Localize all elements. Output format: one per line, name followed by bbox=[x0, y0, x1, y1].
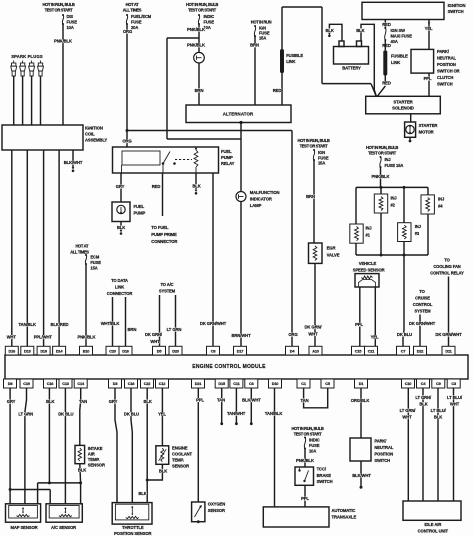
svg-text:VALVE: VALVE bbox=[327, 252, 340, 257]
svg-text:SYSTEM: SYSTEM bbox=[159, 288, 176, 293]
svg-text:BRN/WHT: BRN/WHT bbox=[231, 333, 251, 338]
svg-text:YEL: YEL bbox=[158, 412, 166, 417]
svg-text:TEST OR START: TEST OR START bbox=[368, 151, 397, 156]
svg-text:INDIC: INDIC bbox=[309, 438, 320, 443]
svg-text:CONTROL: CONTROL bbox=[413, 302, 433, 307]
svg-text:TO FUEL: TO FUEL bbox=[151, 225, 169, 230]
svg-text:NEUTRAL: NEUTRAL bbox=[437, 56, 456, 61]
svg-text:HOT IN RUN, BULB: HOT IN RUN, BULB bbox=[366, 145, 398, 150]
svg-text:WHT: WHT bbox=[450, 402, 460, 407]
svg-text:INJ: INJ bbox=[391, 196, 397, 201]
svg-text:STARTER: STARTER bbox=[393, 99, 413, 104]
svg-text:D17: D17 bbox=[237, 348, 244, 353]
svg-text:D15: D15 bbox=[218, 381, 226, 386]
svg-text:IGN: IGN bbox=[318, 150, 325, 155]
svg-text:YEL: YEL bbox=[425, 26, 433, 31]
svg-text:RED: RED bbox=[382, 22, 391, 27]
svg-text:POSITION SENSOR: POSITION SENSOR bbox=[114, 531, 151, 536]
svg-text:TAN: TAN bbox=[79, 399, 87, 404]
svg-text:BRN: BRN bbox=[128, 327, 137, 332]
svg-text:TO: TO bbox=[419, 289, 425, 294]
svg-text:BLK/WHT: BLK/WHT bbox=[242, 398, 261, 403]
svg-text:PNK/BLK: PNK/BLK bbox=[78, 335, 96, 340]
svg-text:RED: RED bbox=[273, 88, 282, 93]
svg-text:OXYGEN: OXYGEN bbox=[208, 501, 225, 506]
svg-text:DK BLU: DK BLU bbox=[124, 412, 139, 417]
svg-text:PPL: PPL bbox=[196, 398, 204, 403]
svg-text:ORG: ORG bbox=[122, 139, 131, 144]
svg-text:RED: RED bbox=[382, 81, 391, 86]
svg-text:LAMP: LAMP bbox=[250, 203, 262, 208]
svg-text:IGNITION: IGNITION bbox=[448, 3, 466, 8]
svg-text:BRN: BRN bbox=[306, 194, 315, 199]
svg-text:CLUTCH: CLUTCH bbox=[437, 75, 453, 80]
svg-text:COOLANT: COOLANT bbox=[172, 452, 193, 457]
svg-text:SENSOR: SENSOR bbox=[88, 463, 105, 468]
svg-text:D20: D20 bbox=[172, 348, 179, 353]
svg-text:TEMP.: TEMP. bbox=[88, 457, 100, 462]
svg-text:SOLENOID: SOLENOID bbox=[392, 106, 414, 111]
svg-text:BLK: BLK bbox=[192, 184, 200, 189]
svg-text:PNK/BLK: PNK/BLK bbox=[187, 27, 205, 32]
svg-text:BRAKE: BRAKE bbox=[317, 473, 332, 478]
svg-text:HOT IN RUN, BULB: HOT IN RUN, BULB bbox=[186, 2, 218, 7]
svg-text:SYSTEM: SYSTEM bbox=[414, 308, 431, 313]
svg-text:FUEL: FUEL bbox=[134, 204, 145, 209]
svg-text:C22: C22 bbox=[144, 381, 152, 386]
svg-text:LINK: LINK bbox=[115, 285, 124, 290]
svg-text:BLK: BLK bbox=[419, 402, 427, 407]
svg-text:ALL TIMES: ALL TIMES bbox=[70, 249, 89, 254]
svg-text:IGN SW: IGN SW bbox=[391, 28, 406, 33]
svg-text:DK GRN/: DK GRN/ bbox=[145, 332, 163, 337]
svg-text:TAN: TAN bbox=[301, 398, 309, 403]
svg-text:15A: 15A bbox=[90, 266, 97, 271]
svg-text:D10: D10 bbox=[272, 381, 279, 386]
svg-text:15A: 15A bbox=[318, 161, 325, 166]
svg-text:HOT IN RUN, BULB: HOT IN RUN, BULB bbox=[43, 2, 75, 7]
svg-text:RED: RED bbox=[152, 184, 161, 189]
svg-text:INJ: INJ bbox=[415, 224, 421, 229]
svg-text:A10: A10 bbox=[312, 348, 319, 353]
svg-text:INDICATOR: INDICATOR bbox=[250, 196, 272, 201]
svg-text:FUEL: FUEL bbox=[221, 149, 232, 154]
svg-text:TCC/: TCC/ bbox=[317, 467, 327, 472]
svg-text:WHT: WHT bbox=[402, 415, 412, 420]
svg-text:A/C SENSOR: A/C SENSOR bbox=[51, 525, 76, 530]
svg-text:FUSE: FUSE bbox=[67, 20, 78, 25]
svg-text:FUEL/ECM: FUEL/ECM bbox=[131, 14, 152, 19]
svg-text:LT GRN/: LT GRN/ bbox=[400, 408, 417, 413]
svg-text:THROTTLE: THROTTLE bbox=[122, 525, 144, 530]
svg-text:BLK/RED: BLK/RED bbox=[51, 322, 69, 327]
svg-text:SENSOR: SENSOR bbox=[208, 508, 225, 513]
svg-text:TEMP.: TEMP. bbox=[172, 458, 184, 463]
svg-text:ALL TIMES: ALL TIMES bbox=[123, 8, 142, 13]
svg-text:15A: 15A bbox=[259, 36, 266, 41]
svg-text:SENSOR: SENSOR bbox=[172, 464, 189, 469]
svg-text:PPL: PPL bbox=[301, 496, 309, 501]
svg-text:VEHICLE: VEHICLE bbox=[359, 261, 377, 266]
svg-text:WHT/BLK: WHT/BLK bbox=[101, 321, 120, 326]
svg-text:DK GRN/WHT: DK GRN/WHT bbox=[409, 321, 436, 326]
svg-text:BLK: BLK bbox=[434, 415, 442, 420]
svg-text:BLK: BLK bbox=[78, 468, 86, 473]
svg-text:BRN: BRN bbox=[195, 88, 204, 93]
svg-text:TRANSAXLE: TRANSAXLE bbox=[332, 514, 357, 519]
svg-text:MAXI FUSE: MAXI FUSE bbox=[391, 34, 413, 39]
svg-text:LT GRN: LT GRN bbox=[167, 327, 182, 332]
svg-text:TAN: TAN bbox=[217, 398, 225, 403]
svg-text:TO: TO bbox=[444, 257, 450, 262]
svg-text:C16: C16 bbox=[47, 381, 55, 386]
svg-text:HOT IN RUN: HOT IN RUN bbox=[251, 20, 272, 25]
svg-text:PNK/BLK: PNK/BLK bbox=[296, 458, 314, 463]
svg-text:IDLE AIR: IDLE AIR bbox=[424, 522, 441, 527]
svg-text:CONNECTOR: CONNECTOR bbox=[151, 239, 177, 244]
svg-text:EGR: EGR bbox=[327, 246, 336, 251]
svg-text:TO DATA: TO DATA bbox=[111, 278, 128, 283]
svg-text:TEST OR START: TEST OR START bbox=[300, 144, 329, 149]
svg-text:MOTOR: MOTOR bbox=[419, 129, 434, 134]
svg-text:ASSEMBLY: ASSEMBLY bbox=[85, 138, 107, 143]
svg-text:HOT AT: HOT AT bbox=[126, 2, 140, 7]
svg-text:BLK: BLK bbox=[117, 225, 125, 230]
svg-text:INJ: INJ bbox=[438, 196, 444, 201]
svg-text:BLK/WHT: BLK/WHT bbox=[352, 473, 371, 478]
svg-text:FUSIBLE: FUSIBLE bbox=[286, 53, 303, 58]
svg-text:SWITCH OR: SWITCH OR bbox=[437, 69, 460, 74]
svg-text:ORG: ORG bbox=[288, 332, 297, 337]
svg-text:LINK: LINK bbox=[286, 59, 295, 64]
svg-text:LT BLU/: LT BLU/ bbox=[431, 408, 447, 413]
svg-text:ALTERNATOR: ALTERNATOR bbox=[223, 112, 254, 117]
svg-text:PNK/BLK: PNK/BLK bbox=[187, 43, 205, 48]
svg-text:D14: D14 bbox=[56, 348, 64, 353]
svg-text:PPL/WHT: PPL/WHT bbox=[34, 335, 53, 340]
svg-text:PUMP: PUMP bbox=[221, 155, 233, 160]
svg-text:TAN/BLK: TAN/BLK bbox=[265, 411, 282, 416]
svg-text:IGNITION: IGNITION bbox=[85, 126, 103, 131]
svg-text:TEST OR START: TEST OR START bbox=[45, 8, 74, 13]
svg-text:AIR: AIR bbox=[88, 452, 95, 457]
svg-text:D11: D11 bbox=[445, 348, 452, 353]
svg-text:C12: C12 bbox=[159, 381, 167, 386]
svg-text:LT GRN: LT GRN bbox=[18, 412, 33, 417]
svg-text:C14: C14 bbox=[77, 381, 85, 386]
svg-text:D21: D21 bbox=[195, 381, 203, 386]
svg-text:FUSE: FUSE bbox=[204, 20, 215, 25]
svg-text:FUSE: FUSE bbox=[131, 20, 142, 25]
svg-text:C13: C13 bbox=[62, 381, 70, 386]
svg-text:BLK: BLK bbox=[46, 399, 54, 404]
svg-text:TO A/C: TO A/C bbox=[160, 282, 173, 287]
svg-text:INTAKE: INTAKE bbox=[88, 446, 103, 451]
svg-text:COOLING FAN: COOLING FAN bbox=[433, 264, 460, 269]
svg-text:C20: C20 bbox=[109, 348, 116, 353]
svg-text:TEST OR START: TEST OR START bbox=[294, 431, 323, 436]
svg-text:C11: C11 bbox=[233, 381, 240, 386]
svg-text:DIS: DIS bbox=[67, 14, 74, 19]
svg-text:FUSIBLE: FUSIBLE bbox=[391, 54, 408, 59]
svg-text:AUTOMATIC: AUTOMATIC bbox=[332, 508, 356, 513]
svg-text:PPL: PPL bbox=[424, 76, 432, 81]
svg-text:C10: C10 bbox=[405, 381, 412, 386]
svg-text:BLK: BLK bbox=[325, 28, 333, 33]
svg-text:FUSE: FUSE bbox=[318, 155, 329, 160]
svg-text:WHT: WHT bbox=[308, 332, 318, 337]
svg-text:PARK/: PARK/ bbox=[374, 439, 387, 444]
svg-text:C21: C21 bbox=[368, 348, 376, 353]
svg-text:SPEED SENSOR: SPEED SENSOR bbox=[353, 267, 385, 272]
svg-text:HOT AT: HOT AT bbox=[75, 244, 89, 249]
svg-text:LT BLU/: LT BLU/ bbox=[447, 395, 463, 400]
svg-text:D22: D22 bbox=[417, 348, 425, 353]
svg-text:D16: D16 bbox=[122, 348, 130, 353]
svg-text:LINK: LINK bbox=[391, 60, 400, 65]
svg-text:BLK/WHT: BLK/WHT bbox=[64, 160, 83, 165]
svg-text:BLK: BLK bbox=[356, 28, 364, 33]
svg-text:ORG: ORG bbox=[123, 29, 132, 34]
svg-text:DK GRN/WHT: DK GRN/WHT bbox=[200, 321, 227, 326]
svg-text:C7: C7 bbox=[401, 348, 406, 353]
svg-text:STARTER: STARTER bbox=[419, 123, 438, 128]
svg-text:SWITCH: SWITCH bbox=[374, 458, 390, 463]
svg-text:INDIC: INDIC bbox=[204, 14, 215, 19]
svg-text:NEUTRAL: NEUTRAL bbox=[374, 445, 393, 450]
svg-text:TEST OR START: TEST OR START bbox=[188, 8, 217, 13]
svg-text:POSITION: POSITION bbox=[437, 62, 456, 67]
svg-text:C19: C19 bbox=[23, 381, 31, 386]
svg-text:GRY: GRY bbox=[7, 399, 16, 404]
svg-text:CONTROL RELAY: CONTROL RELAY bbox=[430, 270, 464, 275]
svg-text:HOT IN RUN, BULB: HOT IN RUN, BULB bbox=[292, 426, 324, 431]
svg-text:10A: 10A bbox=[309, 449, 316, 454]
svg-text:B10: B10 bbox=[83, 348, 90, 353]
svg-text:CONTROL UNIT: CONTROL UNIT bbox=[418, 528, 449, 533]
svg-text:MALFUNCTION: MALFUNCTION bbox=[250, 190, 280, 195]
svg-text:PNK/BLK: PNK/BLK bbox=[372, 174, 390, 179]
svg-text:INJ: INJ bbox=[385, 157, 391, 162]
svg-text:INJ: INJ bbox=[366, 226, 372, 231]
svg-text:DK GRN/WHT: DK GRN/WHT bbox=[435, 332, 462, 337]
svg-text:PARK/: PARK/ bbox=[437, 49, 450, 54]
svg-text:C15: C15 bbox=[355, 348, 363, 353]
svg-text:40A: 40A bbox=[391, 39, 398, 44]
svg-text:CONNECTOR: CONNECTOR bbox=[107, 291, 133, 296]
svg-text:BATTERY: BATTERY bbox=[342, 66, 361, 71]
svg-text:D19: D19 bbox=[40, 348, 48, 353]
svg-text:PUMP: PUMP bbox=[134, 210, 146, 215]
svg-text:BLK: BLK bbox=[144, 399, 152, 404]
svg-text:DK BLU: DK BLU bbox=[58, 412, 73, 417]
svg-text:PPL: PPL bbox=[355, 322, 363, 327]
svg-text:MAP SENSOR: MAP SENSOR bbox=[10, 525, 37, 530]
svg-text:LT GRN/: LT GRN/ bbox=[415, 395, 432, 400]
svg-text:C18: C18 bbox=[128, 381, 136, 386]
svg-text:TAN/WHT: TAN/WHT bbox=[227, 411, 246, 416]
svg-text:COIL: COIL bbox=[85, 132, 95, 137]
svg-text:CRUISE: CRUISE bbox=[415, 295, 430, 300]
svg-text:YEL: YEL bbox=[371, 335, 379, 340]
svg-text:SPARK PLUGS: SPARK PLUGS bbox=[11, 54, 43, 59]
svg-text:ENGINE CONTROL MODULE: ENGINE CONTROL MODULE bbox=[192, 364, 266, 370]
svg-text:GRY: GRY bbox=[116, 184, 125, 189]
svg-text:RED: RED bbox=[382, 43, 391, 48]
svg-text:ENGINE: ENGINE bbox=[172, 446, 188, 451]
svg-text:DK BLU: DK BLU bbox=[397, 332, 412, 337]
svg-text:SWITCH: SWITCH bbox=[448, 9, 464, 14]
svg-text:D16: D16 bbox=[9, 348, 17, 353]
svg-text:DK GRN/: DK GRN/ bbox=[305, 325, 323, 330]
svg-text:FUSE: FUSE bbox=[309, 443, 320, 448]
svg-text:BRN: BRN bbox=[250, 43, 259, 48]
svg-text:HOT IN RUN, BULB: HOT IN RUN, BULB bbox=[298, 138, 330, 143]
svg-text:BLK: BLK bbox=[138, 491, 146, 496]
svg-text:10A: 10A bbox=[67, 25, 74, 30]
svg-text:BLK: BLK bbox=[159, 468, 167, 473]
svg-text:PNK/BLK: PNK/BLK bbox=[54, 39, 72, 44]
svg-text:FUSE 15A: FUSE 15A bbox=[385, 163, 404, 168]
svg-text:WHT: WHT bbox=[150, 339, 160, 344]
svg-text:SWITCH: SWITCH bbox=[437, 82, 453, 87]
svg-text:PUMP PRIME: PUMP PRIME bbox=[151, 232, 177, 237]
svg-text:ORG/BLK: ORG/BLK bbox=[351, 398, 370, 403]
svg-text:RELAY: RELAY bbox=[221, 161, 235, 166]
svg-text:ECM: ECM bbox=[90, 255, 99, 260]
svg-text:WHT: WHT bbox=[7, 335, 17, 340]
svg-text:SWITCH: SWITCH bbox=[317, 479, 333, 484]
svg-text:GRY: GRY bbox=[109, 399, 118, 404]
svg-text:POSITION: POSITION bbox=[374, 452, 393, 457]
svg-text:FUSE: FUSE bbox=[90, 260, 101, 265]
svg-text:TAN/BLK: TAN/BLK bbox=[19, 322, 36, 327]
svg-text:D13: D13 bbox=[24, 348, 32, 353]
